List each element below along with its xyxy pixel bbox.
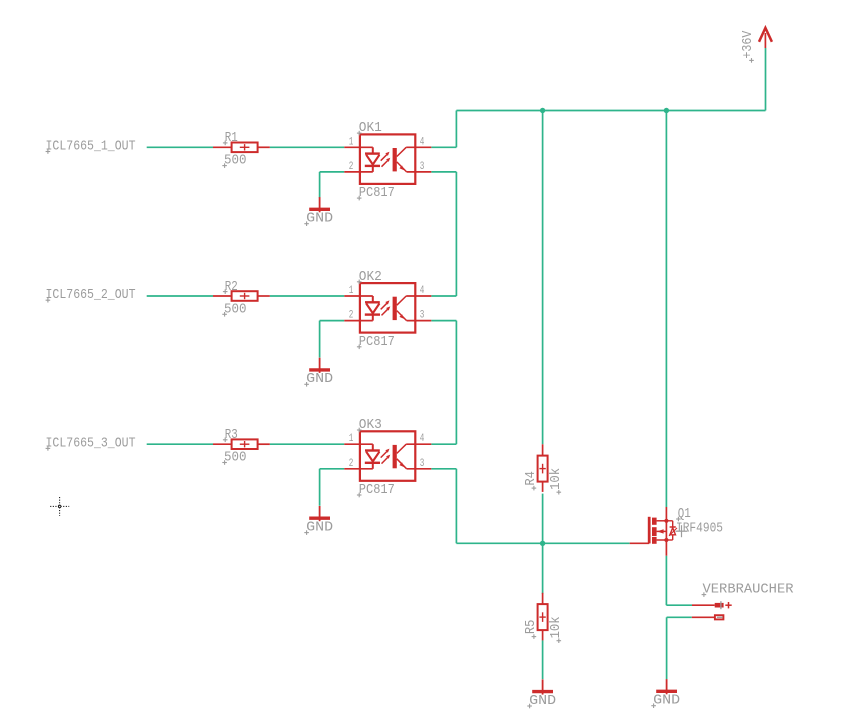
ground GND under OK2 — [319, 358, 321, 373]
OK2 phototransistor — [393, 297, 397, 320]
OK1 pin 4 — [406, 146, 431, 148]
svg-text:VERBRAUCHER: VERBRAUCHER — [703, 582, 795, 598]
svg-text:GND: GND — [653, 693, 680, 709]
svg-text:GND: GND — [306, 520, 333, 536]
svg-text:PC817: PC817 — [359, 334, 395, 350]
svg-text:ICL7665_1_OUT: ICL7665_1_OUT — [46, 138, 136, 154]
svg-text:500: 500 — [224, 450, 247, 466]
wire OK3 pin3 to Q1 gate node — [431, 468, 456, 470]
svg-text:10k: 10k — [548, 616, 564, 638]
Q1 drain connection — [657, 539, 667, 541]
svg-text:GND: GND — [306, 371, 333, 387]
wire net ICL7665_3_OUT input segment — [147, 443, 213, 445]
svg-text:OK2: OK2 — [359, 269, 382, 285]
junction rail/R4 — [540, 108, 545, 113]
wire +36V supply drop — [765, 48, 767, 111]
Q1 body connection with arrow — [657, 530, 667, 532]
optocoupler OK2 PC817 — [360, 283, 415, 333]
wire Q1 drain to VERBRAUCHER pin 1 — [665, 556, 667, 606]
OK2 internal LED — [372, 296, 374, 302]
OK1 internal LED — [372, 147, 374, 153]
optocoupler OK3 PC817 — [360, 431, 415, 481]
ground GND under OK1 — [319, 197, 321, 212]
wire OK1 pin3 to OK2 pin4 — [431, 171, 456, 173]
OK3 pin 4 — [406, 443, 431, 445]
svg-text:OK1: OK1 — [359, 120, 382, 136]
wire net ICL7665_2_OUT input segment — [147, 295, 213, 297]
transistor Q1 IRF4905 p-channel MOSFET — [665, 507, 667, 556]
svg-text:R5: R5 — [523, 620, 539, 635]
svg-text:4: 4 — [420, 136, 425, 148]
OK2 pin 4 — [406, 295, 431, 297]
wire OK1 pin2 to GND — [320, 171, 345, 173]
svg-text:2: 2 — [349, 458, 354, 470]
wire R2 to OK2 pin1 — [270, 295, 345, 297]
OK3 pin 2 — [344, 468, 373, 470]
svg-text:500: 500 — [224, 153, 247, 169]
svg-text:GND: GND — [529, 693, 556, 709]
OK1 pin 3 — [407, 171, 432, 173]
svg-text:R3: R3 — [225, 427, 238, 443]
svg-text:ICL7665_2_OUT: ICL7665_2_OUT — [46, 287, 136, 303]
OK1 phototransistor — [393, 148, 397, 171]
wire rail to Q1 source — [665, 111, 667, 508]
svg-text:10k: 10k — [548, 468, 564, 490]
junction gate node — [540, 541, 545, 546]
wire R4 to gate node — [542, 494, 544, 544]
svg-text:3: 3 — [420, 161, 425, 173]
OK1 pin 1 — [344, 146, 373, 148]
svg-text:OK3: OK3 — [359, 417, 382, 433]
svg-text:R1: R1 — [225, 130, 238, 146]
wire R1 to OK1 pin1 — [270, 146, 345, 148]
Q1 source connection — [657, 520, 667, 522]
wire +36V rail horizontal — [456, 110, 765, 112]
connector pin VERBRAUCHER + (pin 1) — [692, 604, 715, 606]
svg-text:500: 500 — [224, 301, 247, 317]
OK2 pin 3 — [407, 320, 432, 322]
OK2 light arrows — [381, 303, 387, 309]
svg-text:PC817: PC817 — [359, 482, 395, 498]
wire R5 to GND — [542, 640, 544, 679]
OK3 light arrows — [381, 452, 387, 458]
svg-text:R2: R2 — [225, 279, 238, 295]
resistor R2 500 — [213, 295, 232, 297]
wire R3 to OK3 pin1 — [270, 443, 345, 445]
wire net ICL7665_1_OUT input segment — [147, 146, 213, 148]
wire rail to R4 — [542, 111, 544, 445]
OK3 pin 1 — [344, 443, 373, 445]
svg-text:1: 1 — [349, 433, 354, 445]
wire OK3 pin2 to GND — [320, 468, 345, 470]
wire OK2 pin3 to OK3 pin4 — [431, 320, 456, 322]
connector pin VERBRAUCHER - (pin 2) — [692, 616, 715, 618]
svg-text:4: 4 — [420, 285, 425, 297]
OK2 pin 2 — [344, 320, 373, 322]
sheet origin crosshair — [50, 505, 69, 507]
svg-text:ICL7665_3_OUT: ICL7665_3_OUT — [46, 435, 136, 451]
resistor R1 500 — [213, 146, 232, 148]
optocoupler OK1 PC817 — [360, 134, 415, 184]
svg-text:1: 1 — [349, 285, 354, 297]
Q1 origin cross — [676, 530, 688, 532]
svg-text:PC817: PC817 — [359, 185, 395, 201]
svg-text:R4: R4 — [523, 471, 539, 486]
ground GND bottom right — [666, 679, 668, 694]
svg-text:2: 2 — [349, 310, 354, 322]
svg-text:+36V: +36V — [740, 30, 756, 58]
OK1 light arrows — [381, 155, 387, 161]
Q1 gate pin — [630, 542, 650, 544]
svg-text:3: 3 — [420, 310, 425, 322]
svg-text:GND: GND — [306, 211, 333, 227]
resistor R5 10k — [542, 593, 544, 604]
resistor R4 10k — [542, 444, 544, 455]
svg-text:2: 2 — [349, 161, 354, 173]
Q1 internal junctions — [664, 519, 668, 523]
wire VERBRAUCHER pin 2 to GND — [667, 616, 692, 618]
svg-text:3: 3 — [420, 458, 425, 470]
power +36V supply symbol — [759, 28, 772, 42]
OK1 pin 2 — [344, 171, 373, 173]
resistor R3 500 — [213, 443, 232, 445]
OK3 internal LED — [372, 444, 374, 450]
Q1 channel bars — [652, 518, 657, 525]
OK3 phototransistor — [393, 445, 397, 468]
svg-text:4: 4 — [420, 433, 425, 445]
wire OK2 pin2 to GND — [320, 320, 345, 322]
wire gate node to R5 — [542, 543, 544, 594]
OK2 pin 1 — [344, 295, 373, 297]
Q1 gate bar — [648, 517, 651, 544]
svg-text:IRF4905: IRF4905 — [676, 521, 723, 537]
svg-text:1: 1 — [349, 136, 354, 148]
ground GND under OK3 — [319, 506, 321, 521]
OK3 pin 3 — [407, 468, 432, 470]
wire OK1 pin4 to +36V rail — [431, 146, 456, 148]
junction rail/Q1 source — [664, 108, 669, 113]
ground GND under R5 — [542, 679, 544, 694]
Q1 body diode — [672, 521, 674, 527]
